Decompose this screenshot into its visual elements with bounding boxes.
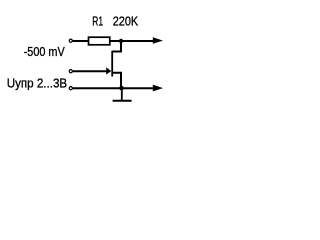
resistor R1 [89, 37, 110, 45]
terminal bottom rail [69, 87, 72, 90]
wire bottom rail [73, 87, 156, 89]
node junction top [119, 39, 123, 43]
wire gate [73, 70, 107, 72]
transistor VT1 gate arrow [106, 67, 111, 74]
ground bar [113, 100, 132, 102]
svg-text:R1: R1 [92, 14, 103, 29]
arrow output top [153, 37, 163, 44]
svg-text:-500 mV: -500 mV [24, 44, 65, 59]
transistor VT1 channel [111, 51, 113, 77]
terminal input -500mV [69, 39, 72, 42]
arrow output bottom [153, 85, 163, 92]
svg-text:Uупр 2...3В: Uупр 2...3В [7, 76, 67, 91]
terminal Uupr gate [69, 70, 72, 73]
wire source lead [112, 73, 121, 88]
svg-text:220K: 220K [113, 14, 139, 29]
ground stem [121, 88, 123, 101]
node junction bottom [119, 86, 124, 91]
wire terminal to R1 [73, 40, 89, 42]
wire R1 to output node [110, 40, 156, 42]
wire drain lead [112, 41, 121, 52]
